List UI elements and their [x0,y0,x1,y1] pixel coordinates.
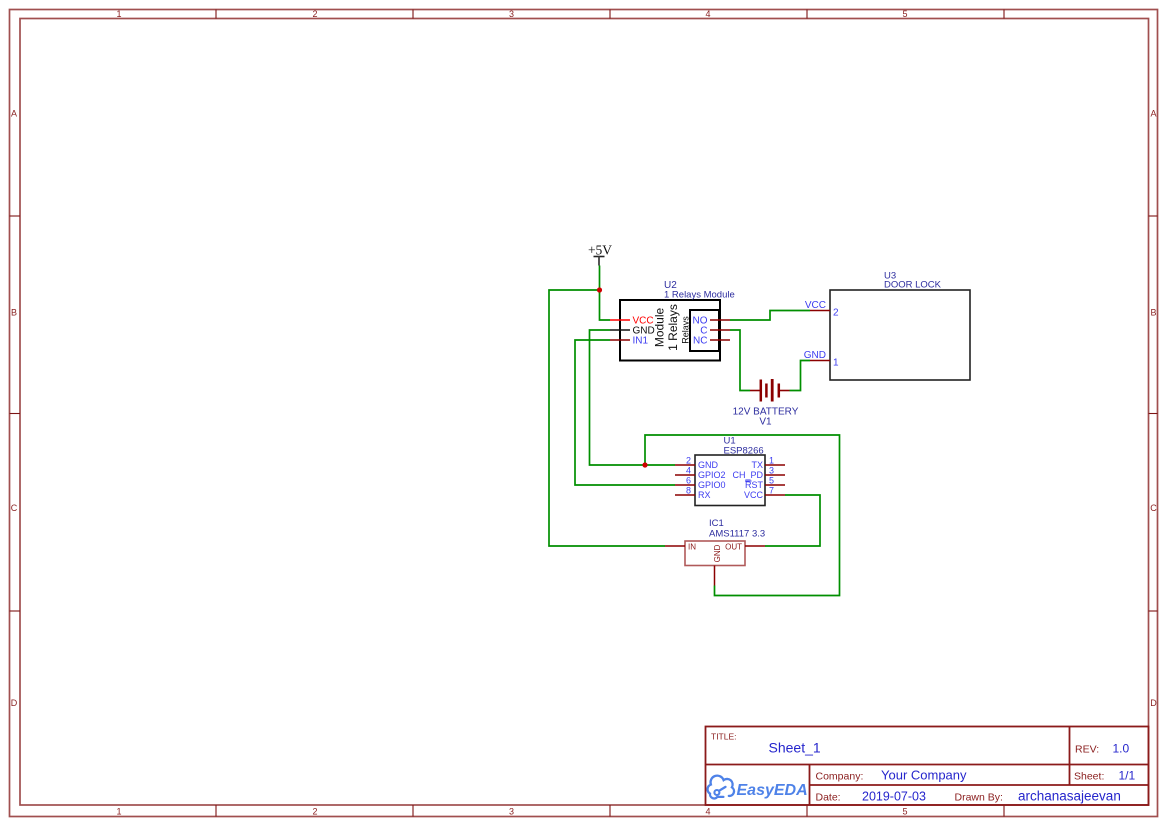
svg-text:VCC: VCC [744,490,764,500]
U3 pin 1 GND [804,350,839,369]
svg-text:1 Relays: 1 Relays [666,304,680,351]
svg-text:IN: IN [688,543,696,552]
svg-text:7: 7 [769,486,774,496]
svg-text:3: 3 [509,807,514,817]
svg-text:2: 2 [686,456,691,466]
svg-text:Sheet:: Sheet: [1074,771,1104,783]
U2 pin IN1 [610,336,649,347]
IC1 pin OUT [745,545,765,547]
svg-text:1: 1 [833,358,839,369]
svg-text:RX: RX [698,490,711,500]
svg-text:2: 2 [312,807,317,817]
U1 pin 5 RST [745,476,785,491]
svg-text:TITLE:: TITLE: [711,732,737,742]
svg-text:1.0: 1.0 [1113,742,1130,756]
svg-text:8: 8 [686,486,691,496]
wire relay NO to U3 VCC [730,311,810,321]
IC1 pin GND [714,566,716,586]
svg-text:3: 3 [509,9,514,19]
svg-text:GND: GND [804,350,826,361]
svg-text:C: C [1150,503,1157,513]
svg-text:NC: NC [693,336,707,347]
power flag +5V [588,243,612,266]
svg-text:5: 5 [902,807,907,817]
U3 pin 2 VCC [805,300,839,319]
U1 pin 4 GPIO2 [675,466,726,481]
U1 pin 3 CH_PD [732,466,785,481]
U2 reference label [664,280,735,301]
title block [706,727,1149,806]
wire ESP VCC pin7 to IC1 OUT [765,495,820,546]
svg-text:3: 3 [769,466,774,476]
svg-text:2019-07-03: 2019-07-03 [862,790,926,804]
svg-text:B: B [1150,308,1156,318]
svg-text:V1: V1 [759,417,772,428]
svg-text:Company:: Company: [816,771,864,783]
U1 pin 1 TX [751,456,785,471]
svg-text:C: C [11,503,18,513]
svg-text:EasyEDA: EasyEDA [737,782,808,799]
svg-text:B: B [11,308,17,318]
svg-text:IN1: IN1 [633,336,649,347]
svg-text:CH_PD: CH_PD [732,470,763,480]
svg-text:1: 1 [116,9,121,19]
svg-text:Relays: Relays [681,316,691,344]
wire relay C to battery plus [730,330,750,391]
svg-text:Date:: Date: [816,792,841,804]
svg-text:A: A [1150,109,1156,119]
U2 pin C [700,326,730,337]
svg-text:D: D [11,698,18,708]
battery V1 [750,379,790,402]
U2 pin NO [693,316,731,327]
svg-text:GPIO2: GPIO2 [698,470,726,480]
svg-text:REV:: REV: [1075,744,1099,756]
svg-text:GND: GND [713,544,722,562]
svg-text:Sheet_1: Sheet_1 [769,740,821,756]
svg-text:Your Company: Your Company [881,768,967,783]
svg-text:GND: GND [698,460,719,470]
wire junction left and down to IC1 IN [549,290,665,546]
svg-text:2: 2 [833,308,839,319]
svg-text:5: 5 [769,476,774,486]
regulator IC1 [685,541,745,566]
svg-text:VCC: VCC [805,300,826,311]
svg-text:1: 1 [116,807,121,817]
svg-text:4: 4 [705,9,710,19]
svg-text:2: 2 [312,9,317,19]
wire U2 GND down to GND junction [590,330,646,465]
wire GND junction up and right to IC1 GND [645,435,840,596]
svg-text:4: 4 [705,807,710,817]
wire battery minus to U3 GND [790,361,811,391]
U2 pin GND [610,326,655,337]
svg-text:Drawn By:: Drawn By: [955,792,1003,804]
U2 pin NC [693,336,730,347]
wire GND junction to ESP pin2 [645,464,675,466]
U1 pin 2 GND [675,456,719,471]
svg-text:A: A [11,109,17,119]
svg-text:DOOR LOCK: DOOR LOCK [884,280,942,291]
V1 value label [733,407,799,428]
svg-text:4: 4 [686,466,691,476]
svg-text:AMS1117 3.3: AMS1117 3.3 [709,529,765,540]
wire junction down to U2 VCC [600,290,611,320]
U3 reference label [884,271,942,291]
door lock U3 [830,290,970,380]
ESP8266 U1 [695,455,765,506]
U1 pin 7 VCC [744,486,785,501]
svg-text:D: D [1150,698,1157,708]
wire U2 IN1 to ESP GPIO0 [575,340,675,485]
svg-text:+5V: +5V [588,243,612,258]
svg-text:archanasajeevan: archanasajeevan [1018,789,1121,804]
svg-text:OUT: OUT [725,543,742,552]
wire +5V flag to junction [599,266,601,291]
svg-text:ESP8266: ESP8266 [724,446,764,457]
junction dot GND node [642,462,647,467]
IC1 reference label [709,518,765,540]
U2 pin VCC [610,316,654,327]
EasyEDA logo [708,776,734,799]
svg-text:6: 6 [686,476,691,486]
U1 pin 6 GPIO0 [675,476,726,491]
svg-text:5: 5 [902,9,907,19]
U1 reference label [724,436,764,457]
junction dot +5V node [597,287,602,292]
relay module U2 [620,300,720,361]
U1 pin 8 RX [675,486,711,501]
IC1 pin IN [665,545,685,547]
svg-text:TX: TX [751,460,763,470]
svg-text:1: 1 [769,456,774,466]
svg-text:1 Relays Module: 1 Relays Module [664,290,735,301]
svg-text:GPIO0: GPIO0 [698,480,726,490]
svg-text:IC1: IC1 [709,518,724,529]
svg-text:1/1: 1/1 [1119,769,1136,783]
